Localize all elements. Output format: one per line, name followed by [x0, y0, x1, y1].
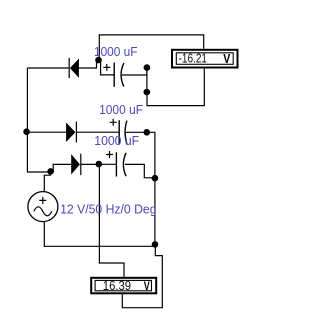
wire C3 right to node E: [125, 164, 155, 177]
svg-text:1000 uF: 1000 uF: [94, 44, 138, 59]
wire D1 anode to node A: [79, 60, 97, 68]
AC source V1: [28, 192, 58, 222]
wire D2 cathode to C2: [77, 131, 119, 133]
wire row B dot to D2: [27, 131, 66, 133]
wire node A up to top rail and to voltmeter U1 top: [99, 35, 203, 60]
diode D1: [69, 58, 79, 78]
node left-rail junction dot: [23, 128, 30, 135]
wire D3 cathode to node G: [81, 163, 99, 165]
wire node B to node C1-right: [146, 68, 148, 93]
svg-text:V: V: [223, 51, 230, 66]
svg-text:1000 uF: 1000 uF: [99, 102, 143, 117]
node E junction dot: [152, 175, 159, 182]
wire left rail: [27, 68, 50, 172]
wire C2 right to node D: [126, 131, 147, 133]
capacitor C3: [106, 151, 126, 177]
node A junction dot: [95, 57, 102, 64]
capacitor C2: [110, 119, 127, 145]
wire node D down right rail to node E: [147, 132, 155, 178]
node F junction dot: [47, 168, 54, 175]
node C1-right junction dot: [144, 64, 151, 71]
wire right rail node E to node H: [154, 178, 156, 244]
wire node H down to U2 bottom: [122, 244, 162, 307]
wire U1 bottom to node B: [147, 69, 204, 106]
svg-text:16.39: 16.39: [103, 279, 131, 293]
svg-text:-16.21: -16.21: [179, 52, 207, 66]
voltmeter U2: [91, 278, 156, 294]
wire node F down to AC source top: [44, 172, 50, 192]
node G junction dot: [96, 161, 103, 168]
wire C1 left plate to node A: [101, 60, 114, 75]
wire node G to C3: [99, 163, 116, 165]
wire node F hook up to row C: [51, 164, 72, 171]
node D junction dot: [144, 129, 151, 136]
wire row A left to D1: [27, 67, 68, 69]
voltmeter U1: [172, 50, 238, 68]
svg-text:1000 uF: 1000 uF: [94, 133, 139, 148]
wire AC source bottom to node H: [44, 222, 154, 247]
svg-text:V: V: [144, 279, 150, 293]
node B junction dot: [144, 89, 151, 96]
diode D3: [71, 154, 81, 175]
node H junction dot: [152, 241, 159, 248]
wire node G down to U2 top: [99, 164, 124, 276]
diode D2: [66, 122, 77, 143]
svg-text:12 V/50 Hz/0 Deg: 12 V/50 Hz/0 Deg: [60, 202, 156, 217]
capacitor C1: [103, 63, 124, 87]
wire C1 right plate hook: [122, 68, 147, 75]
